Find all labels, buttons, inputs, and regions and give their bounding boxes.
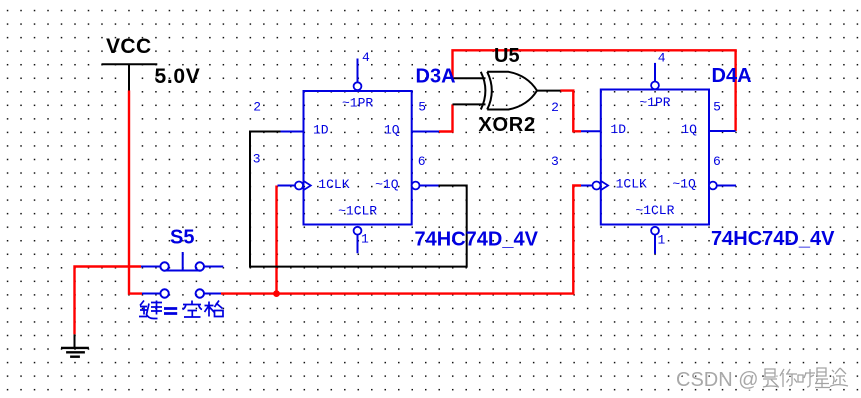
pin 3 1CLK stub (581, 185, 593, 187)
svg-text:~1PR: ~1PR (342, 95, 373, 110)
wire switch to clocks (bottom rail) (221, 186, 581, 294)
flip-flop U1 D3A 74HC74D (253, 50, 439, 253)
svg-text:6: 6 (418, 154, 426, 169)
svg-text:1: 1 (361, 232, 369, 247)
svg-text:~1Q: ~1Q (375, 177, 399, 192)
pin 5 1Q stub (709, 130, 736, 132)
switch S5 (141, 252, 223, 298)
wire XOR output to FF2 1D (537, 90, 561, 92)
pin 2 1D stub (581, 130, 601, 132)
svg-text:4: 4 (362, 50, 370, 65)
pin 4 ~1PR (357, 59, 359, 83)
wire FF1 feedback ~1Q to 1D (250, 132, 467, 267)
svg-text:74HC74D_4V: 74HC74D_4V (711, 228, 835, 250)
svg-text:CSDN @: CSDN @ (676, 369, 759, 391)
svg-text:4: 4 (658, 51, 666, 66)
svg-text:5: 5 (713, 99, 721, 114)
svg-text:~1PR: ~1PR (639, 95, 670, 110)
svg-text:~1CLR: ~1CLR (635, 203, 674, 218)
svg-text:6: 6 (713, 154, 721, 169)
svg-text:~1CLR: ~1CLR (338, 203, 377, 218)
junction (273, 290, 280, 297)
pin 1 ~1CLR (354, 227, 362, 235)
ground (61, 334, 89, 356)
wire FF2 1Q to XOR input A (top rail) (453, 50, 736, 131)
svg-text:D3A: D3A (416, 66, 456, 88)
svg-text:1CLK: 1CLK (616, 177, 647, 192)
pin 6 ~1Q stub (412, 182, 420, 190)
svg-text:VCC: VCC (106, 35, 152, 58)
svg-text:D4A: D4A (712, 65, 752, 87)
svg-text:1Q: 1Q (384, 123, 400, 138)
wire junction to FF1 clock (275, 186, 277, 294)
svg-text:~1Q: ~1Q (672, 177, 696, 192)
svg-text:3: 3 (551, 154, 559, 169)
wire ground to switch top row (75, 267, 142, 335)
svg-text:XOR2: XOR2 (479, 114, 536, 136)
pin 6 ~1Q stub (709, 182, 717, 190)
svg-text:S5: S5 (170, 227, 194, 249)
svg-text:U5: U5 (494, 45, 520, 67)
svg-text:1D: 1D (610, 122, 626, 137)
label key = space (139, 301, 223, 319)
pin 3 1CLK stub (278, 185, 296, 187)
svg-text:74HC74D_4V: 74HC74D_4V (415, 229, 539, 251)
pin 1 ~1CLR (651, 227, 659, 235)
svg-text:1D: 1D (313, 123, 329, 138)
watermark CSDN (676, 368, 849, 392)
svg-text:2: 2 (551, 100, 559, 115)
svg-text:5.0V: 5.0V (155, 65, 201, 88)
pin 2 1D stub (281, 131, 304, 133)
xor gate U5 XOR2 (481, 72, 537, 110)
svg-text:5: 5 (418, 100, 426, 115)
wire XOR input stubs (453, 103, 486, 105)
flip-flop U2 D4A 74HC74D (581, 51, 736, 254)
svg-text:2: 2 (253, 100, 261, 115)
wire FF1 1Q to XOR input B (439, 104, 453, 131)
svg-text:1: 1 (658, 233, 666, 248)
wire VCC to switch (129, 91, 142, 294)
svg-text:1CLK: 1CLK (318, 177, 349, 192)
svg-text:3: 3 (253, 151, 261, 166)
power VCC (102, 35, 201, 91)
pin 5 1Q stub (412, 131, 439, 133)
svg-text:1Q: 1Q (681, 122, 697, 137)
pin 4 ~1PR (654, 63, 656, 82)
